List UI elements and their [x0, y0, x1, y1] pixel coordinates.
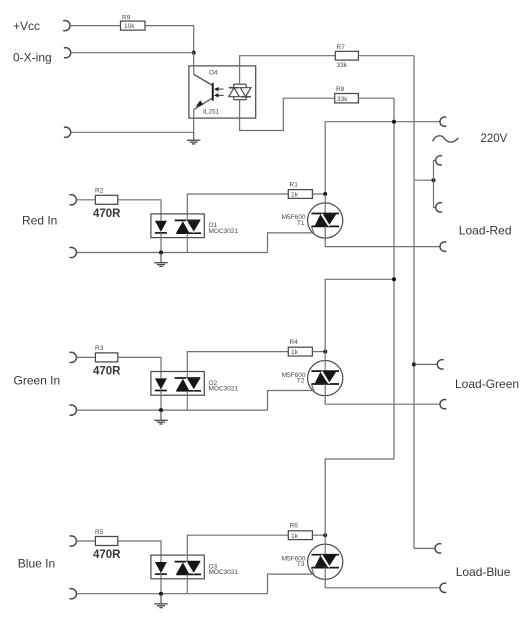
svg-text:1k: 1k [291, 192, 299, 199]
svg-text:470R: 470R [93, 549, 121, 561]
svg-text:T3: T3 [297, 561, 305, 568]
triac T3 symbol [311, 535, 339, 567]
svg-text:R2: R2 [95, 188, 104, 195]
wire Red In return to gate step [76, 252, 267, 254]
connector Load-Green terminal [440, 400, 446, 409]
svg-text:R7: R7 [337, 44, 346, 51]
triac T2 circle [308, 361, 343, 396]
connector J4 220V line [440, 117, 446, 126]
wire +Vcc to R9 [70, 25, 121, 27]
connector J1 +Vcc [63, 21, 70, 31]
wire diode bottom to R8 [240, 98, 335, 130]
svg-text:R6: R6 [290, 523, 299, 530]
connector J5 220V return upper [436, 156, 442, 165]
svg-text:Green In: Green In [14, 373, 61, 387]
wire O2 pin 6 to gate resistor [187, 352, 288, 372]
wire O1 LED cathode down [160, 233, 162, 253]
photo-triac inside O2 [175, 372, 201, 411]
svg-text:R3: R3 [95, 345, 104, 352]
node triac T3 MT2 junction [323, 533, 327, 537]
wire R8 to rail A [358, 97, 394, 99]
wire node A to O4 collector [193, 53, 195, 75]
wire O1 pin 6 to gate resistor [187, 194, 288, 214]
node rail A 220V junction [392, 120, 396, 124]
svg-text:T2: T2 [297, 377, 305, 384]
svg-text:10k: 10k [124, 23, 135, 30]
svg-text:R5: R5 [95, 529, 104, 536]
wire R5 to O3 LED anode [118, 541, 161, 562]
wire rail A end feed to T3 [325, 459, 394, 535]
wire triac T2 gate [268, 384, 314, 410]
resistor R4 [288, 339, 312, 356]
wire O3 LED cathode down [160, 574, 162, 594]
optocoupler O1 box [151, 214, 204, 238]
svg-text:IL251: IL251 [203, 109, 220, 116]
svg-text:470R: 470R [93, 208, 121, 220]
wire O3 pin 6 to gate resistor [187, 535, 288, 555]
svg-text:+Vcc: +Vcc [13, 19, 40, 33]
connector input Green In signal [70, 352, 77, 362]
svg-text:33k: 33k [337, 62, 348, 69]
wire rail B bottom end [414, 547, 435, 549]
optocoupler O3 box [151, 555, 204, 579]
node triac T2 MT2 junction [323, 350, 327, 354]
wire R4 to triac T2 node [312, 351, 325, 353]
resistor R6 [288, 523, 312, 540]
svg-text:1k: 1k [291, 533, 299, 540]
wire T2 MT1 to Load-Green [325, 384, 440, 404]
resistor R5 [95, 529, 118, 546]
wire O2 LED cathode down [160, 391, 162, 411]
wire R2 to O1 LED anode [118, 200, 161, 221]
svg-text:MOC3021: MOC3021 [209, 228, 239, 235]
connector input Red In signal [70, 195, 77, 205]
svg-text:MOC3021: MOC3021 [209, 386, 239, 393]
svg-text:33k: 33k [337, 96, 348, 103]
svg-text:Load-Blue: Load-Blue [456, 565, 511, 579]
wire O4 emitter to ground node [193, 110, 195, 133]
resistor R1 [288, 181, 312, 198]
wire 220V top feed [325, 122, 440, 194]
node Red In LED cathode junction [159, 251, 163, 255]
svg-text:R4: R4 [290, 339, 299, 346]
svg-text:R9: R9 [122, 15, 131, 22]
connector input Blue In return [70, 589, 77, 599]
resistor R9 [121, 15, 146, 31]
ground GND3 [154, 410, 167, 424]
svg-text:470R: 470R [93, 366, 121, 378]
wire R1 to triac T1 node [312, 193, 325, 195]
wire Blue In return to gate step [76, 593, 267, 595]
resistor R2 [95, 188, 118, 205]
svg-text:0-X-ing: 0-X-ing [13, 51, 52, 65]
connector input Blue In signal [70, 536, 77, 546]
wire rail B neutral stub [414, 363, 437, 365]
triac T3 circle [308, 544, 343, 579]
LED inside O1 [155, 221, 167, 233]
node A junction [192, 51, 196, 55]
connector Load-Red terminal [440, 242, 446, 251]
wire triac T1 gate [268, 226, 314, 252]
wire rail A feed to T2 [325, 279, 394, 351]
svg-text:Blue In: Blue In [18, 556, 55, 570]
wire rail B vertical [413, 56, 415, 549]
wire R7 to rail B [358, 55, 414, 57]
wire J3 to O4 emitter [71, 131, 194, 133]
wire R3 to O2 LED anode [118, 357, 161, 378]
LED inside O3 [155, 562, 167, 574]
LED inside O2 [155, 378, 167, 390]
wire bracket vertical [434, 160, 436, 207]
wire Green In to R3 [76, 356, 95, 358]
connector input Green In return [70, 405, 77, 415]
node triac T1 MT2 junction [323, 192, 327, 196]
svg-text:R1: R1 [290, 181, 299, 188]
resistor R7 [335, 44, 358, 69]
connector J2 0-X-ing [64, 48, 71, 58]
photo-triac inside O3 [175, 555, 201, 594]
svg-text:R8: R8 [336, 86, 345, 93]
wire Red In to R2 [76, 199, 95, 201]
wire T3 MT1 to Load-Blue [325, 568, 440, 588]
wire T1 MT1 to Load-Red [325, 226, 440, 246]
connector J6 220V return lower [436, 203, 442, 212]
node bracket junction [432, 178, 436, 182]
svg-text:O4: O4 [209, 70, 218, 77]
svg-text:1k: 1k [291, 349, 299, 356]
svg-text:Load-Green: Load-Green [455, 377, 519, 391]
connector J8 neutral bottom [435, 544, 441, 553]
triac T2 symbol [311, 352, 339, 384]
wire R6 to triac T3 node [312, 534, 325, 536]
optocoupler O4 box [189, 66, 256, 118]
svg-text:T1: T1 [297, 220, 305, 227]
optocoupler O2 box [151, 372, 204, 396]
resistor R3 [95, 345, 118, 362]
transistor inside O4 phototransistor [194, 74, 214, 109]
wire R9 to node A [145, 26, 194, 53]
photo-triac inside O1 [175, 214, 201, 253]
AC source tilde symbol [433, 136, 459, 142]
wire 0-X-ing to node A [71, 52, 194, 54]
resistor R8 [335, 86, 359, 103]
triac T1 symbol [311, 194, 339, 226]
wire Green In return to gate step [76, 409, 267, 411]
connector J3 O4 input return [64, 127, 71, 137]
wire Blue In to R5 [76, 540, 95, 542]
ground GND4 [154, 594, 167, 608]
connector Load-Blue terminal [440, 583, 446, 592]
svg-text:220V: 220V [481, 133, 508, 145]
ground GND2 [154, 253, 167, 267]
svg-text:MOC3021: MOC3021 [209, 569, 239, 576]
svg-text:Red In: Red In [22, 213, 57, 227]
connector J7 neutral mid [437, 360, 443, 369]
wire rail B to bracket [414, 179, 434, 181]
wire rail A vertical [393, 98, 395, 459]
node Green In LED cathode junction [159, 408, 163, 412]
light arrows into O4 transistor [214, 87, 224, 98]
wire diode top to R7 [240, 56, 336, 84]
node rail A feed junction T2 [392, 277, 396, 281]
wire triac T3 gate [268, 568, 314, 594]
ground GND1 [187, 132, 200, 144]
node Blue In LED cathode junction [159, 592, 163, 596]
svg-text:Load-Red: Load-Red [459, 223, 512, 237]
connector input Red In return [70, 247, 77, 257]
node rail B neutral stub junction [412, 362, 416, 366]
diode pair inside O4 anti-parallel LEDs [229, 84, 251, 100]
triac T1 circle [308, 203, 343, 238]
